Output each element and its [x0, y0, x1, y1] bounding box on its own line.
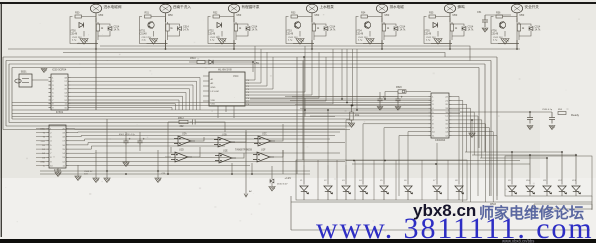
svg-text:4.7μ: 4.7μ: [426, 40, 431, 42]
wire: [106, 119, 108, 178]
ground: [55, 172, 61, 177]
svg-text:4.7μ: 4.7μ: [358, 40, 363, 42]
svg-text:R510: R510: [190, 57, 196, 60]
svg-text:V-: V-: [43, 166, 45, 168]
wire LED3 stem: [345, 165, 347, 200]
svg-text:R55: R55: [429, 12, 434, 15]
zener ZD54: [394, 26, 398, 30]
wire: [140, 17, 166, 44]
wire LED12 stem: [561, 152, 563, 196]
zener ZD50: [108, 26, 112, 30]
wire stem 上水程泵: [311, 13, 313, 22]
wire: [471, 120, 473, 133]
wire bus low1: [40, 170, 310, 172]
wire frame right2: [490, 61, 492, 197]
capacitor: [137, 138, 144, 146]
LED VL509: [508, 186, 517, 194]
svg-text:GND: GND: [211, 87, 216, 89]
svg-text:ZD50 5.6V: ZD50 5.6V: [277, 184, 288, 186]
diode VD50: [79, 23, 84, 28]
connector P3 有程循环泵: [228, 4, 239, 13]
diode: [209, 60, 213, 64]
wire: [57, 168, 59, 172]
svg-text:C530 0.1μ: C530 0.1μ: [542, 109, 553, 111]
LED VL507: [433, 186, 442, 194]
wire: [491, 17, 517, 44]
svg-text:U2C: U2C: [262, 133, 267, 136]
wire LED6 stem: [407, 165, 409, 200]
ground: [104, 178, 110, 183]
resistor: [179, 120, 188, 123]
LED VL505: [380, 186, 389, 194]
svg-text:有程循环泵: 有程循环泵: [242, 4, 260, 9]
wire bus2: [63, 53, 445, 58]
transistor VT56: [499, 21, 505, 28]
svg-text:4.7μ: 4.7μ: [493, 40, 498, 42]
wire: [168, 24, 180, 36]
wire: [125, 132, 127, 162]
wire: [504, 31, 506, 37]
wire: [451, 22, 453, 40]
wire frame1: [6, 61, 491, 127]
node bottom bar: [0, 239, 596, 243]
svg-text:VCC: VCC: [233, 74, 239, 78]
connector P1 进水电磁阀: [90, 4, 101, 13]
wire bus low2: [40, 173, 310, 175]
svg-text:R512: R512: [178, 117, 184, 120]
wire: [165, 147, 171, 157]
wire: [397, 92, 399, 107]
svg-text:C5148: C5148: [356, 32, 364, 35]
ground G55: [434, 39, 442, 45]
wire stem 排水电磁: [381, 13, 383, 22]
ground: [549, 126, 555, 130]
wire bus m1: [12, 109, 460, 111]
LED VL506: [404, 186, 413, 194]
svg-text:4.7μ: 4.7μ: [142, 40, 147, 42]
svg-text:C5148: C5148: [208, 32, 216, 35]
svg-text:TA8687F/8659: TA8687F/8659: [235, 148, 253, 152]
resistor: [197, 60, 205, 63]
zener ZD56: [529, 26, 533, 30]
svg-text:M50: M50: [315, 14, 320, 17]
connector P2 西南千洗入: [160, 4, 171, 13]
wire LED4 stem: [362, 165, 364, 200]
svg-text:C51: C51: [477, 11, 482, 14]
wire: [195, 124, 283, 142]
zener ZD55: [462, 26, 466, 30]
wire: [235, 22, 237, 40]
svg-text:C5148: C5148: [70, 32, 78, 35]
wire: [77, 40, 98, 49]
svg-text:U2B: U2B: [222, 134, 227, 137]
wire: [70, 17, 96, 44]
resistor: [558, 112, 566, 115]
op-amp U2B: [214, 137, 235, 147]
ground G50: [80, 39, 88, 45]
ground G51: [149, 39, 157, 45]
wire bus m4: [292, 96, 398, 98]
wire: [153, 31, 155, 37]
connector P5 排水电磁: [376, 4, 387, 13]
wire: [157, 150, 159, 178]
op-amp U2F: [253, 152, 274, 162]
wire: [485, 14, 511, 16]
svg-text:VSS: VSS: [211, 104, 216, 106]
diode VD55: [433, 23, 438, 28]
LED VL508: [455, 186, 464, 194]
wire: [437, 31, 439, 37]
wire: [449, 18, 451, 49]
LED VL501: [300, 186, 309, 194]
svg-text:U2E: U2E: [223, 150, 228, 153]
svg-text:CD4094: CD4094: [435, 138, 446, 142]
wire: [32, 79, 49, 81]
ground: [395, 107, 401, 111]
resistor R56: [496, 15, 503, 18]
wire LED9 stem: [511, 152, 513, 196]
capacitor C513: [190, 120, 199, 125]
zener: [270, 179, 274, 183]
transistor VT54: [364, 21, 370, 28]
wire stem 进水电磁阀: [95, 13, 97, 22]
svg-text:VDD: VDD: [211, 100, 216, 102]
connector P7 安全开关: [511, 4, 522, 13]
wire: [431, 40, 452, 49]
wire: [252, 62, 254, 72]
wire stem 西南千洗入: [165, 13, 167, 22]
wire: [356, 17, 382, 44]
svg-text:+5V: +5V: [254, 61, 259, 65]
svg-text:西南千洗入: 西南千洗入: [173, 4, 191, 9]
wire: [363, 40, 384, 49]
wire small box: [534, 204, 592, 209]
wire: [311, 18, 313, 49]
LED VL502: [324, 186, 333, 194]
wire: [165, 18, 167, 49]
svg-text:排水电磁: 排水电磁: [390, 4, 405, 9]
svg-text:M50: M50: [99, 14, 104, 17]
diode VD52: [217, 23, 222, 28]
ground: [348, 123, 354, 127]
op-amp U2E: [215, 153, 236, 163]
ground: [377, 107, 383, 111]
LED VL503: [342, 186, 351, 194]
svg-text:14.7k: 14.7k: [535, 29, 542, 32]
capacitor: [395, 96, 402, 104]
wire bus m7: [12, 105, 431, 107]
wire bus m2: [12, 113, 460, 115]
resistor: [350, 112, 353, 120]
ground G54: [366, 39, 374, 45]
capacitor C531: [549, 112, 555, 124]
wire bus m5: [250, 98, 431, 100]
wire: [299, 31, 301, 37]
zener ZD51: [178, 26, 182, 30]
capacitor C517: [482, 15, 488, 27]
svg-text:M50: M50: [385, 14, 390, 17]
LED VL512: [558, 186, 567, 194]
capacitor: [123, 138, 130, 146]
svg-text:OSC: OSC: [40, 129, 45, 131]
resistor R53: [291, 15, 298, 18]
svg-text:4.7μ: 4.7μ: [288, 40, 293, 42]
resistor R56b: [517, 24, 520, 31]
ground: [123, 162, 129, 167]
wire: [233, 18, 235, 49]
wire: [304, 98, 306, 117]
LED VL504: [359, 186, 368, 194]
svg-text:AC: AC: [249, 190, 252, 193]
svg-text:安全开关: 安全开关: [525, 4, 540, 9]
svg-text:14.7k: 14.7k: [330, 29, 337, 32]
ground G56: [501, 39, 509, 45]
wire: [139, 132, 141, 151]
node LED panel right: [505, 156, 592, 196]
svg-text:14.7k: 14.7k: [183, 29, 190, 32]
resistor R55: [429, 15, 436, 18]
resistor R51: [145, 15, 152, 18]
svg-text:R56: R56: [496, 12, 501, 15]
svg-text:C5148: C5148: [286, 32, 294, 35]
wire: [215, 40, 236, 49]
wire LED11 stem: [546, 158, 548, 196]
wire: [95, 18, 97, 49]
svg-text:R52: R52: [213, 12, 218, 15]
wire bus m6: [12, 102, 431, 104]
ground: [469, 133, 475, 138]
wire left border: [0, 4, 2, 237]
ground: [269, 187, 275, 192]
wire: [518, 22, 520, 40]
wire IC4 right fan: [452, 97, 460, 166]
wire: [452, 24, 464, 36]
resistor R54: [361, 15, 368, 18]
wire: [383, 22, 385, 40]
IC IC503: [429, 93, 452, 138]
wire stem 有程循环泵: [233, 13, 235, 22]
svg-text:R53: R53: [291, 12, 296, 15]
wire: [296, 57, 298, 174]
wire: [167, 122, 169, 174]
svg-text:M50: M50: [168, 14, 173, 17]
svg-text:14.7k: 14.7k: [468, 29, 475, 32]
svg-text:R50: R50: [75, 12, 80, 15]
wire frame3: [12, 68, 479, 120]
wire: [424, 17, 450, 44]
svg-text:LF 5.6M: LF 5.6M: [211, 91, 219, 93]
wire LED2 stem: [327, 165, 329, 200]
svg-text:蜂鸣: 蜂鸣: [458, 4, 466, 9]
wire: [293, 40, 314, 49]
svg-text:C5148: C5148: [424, 32, 432, 35]
IC U1 HL-8A MCU: [209, 72, 245, 106]
wire: [351, 106, 353, 113]
svg-text:R51: R51: [145, 12, 150, 15]
svg-text:Ready: Ready: [571, 113, 580, 117]
ground: [41, 69, 47, 73]
wire top border: [0, 2, 596, 4]
wire: [167, 22, 169, 40]
resistor R52: [213, 15, 220, 18]
wire: [236, 24, 248, 36]
wire stem 蜂鸣: [449, 13, 451, 22]
op-amp U2D: [171, 152, 192, 162]
ground: [93, 178, 99, 183]
wire: [314, 24, 326, 36]
wire: [519, 24, 531, 36]
wire: [498, 40, 519, 49]
wire: [208, 17, 234, 44]
capacitor: [377, 96, 384, 104]
node scan specks: [194, 42, 196, 43]
svg-text:B501: B501: [21, 71, 27, 74]
wire IC2 left pins: [203, 75, 209, 77]
op-amp U2C: [254, 136, 275, 146]
wire IC2 bottom: [218, 106, 234, 118]
svg-text:IC502: IC502: [54, 168, 62, 172]
wire: [77, 165, 79, 176]
wire ledbus2: [352, 163, 530, 165]
svg-text:R520: R520: [396, 86, 402, 89]
ground G52: [218, 39, 226, 45]
wire: [232, 150, 283, 174]
wire: [95, 150, 97, 178]
wire frame right4: [478, 68, 480, 149]
wire: [313, 22, 315, 40]
svg-text:M50: M50: [237, 14, 242, 17]
wire LED7 stem: [436, 165, 438, 200]
svg-text:U2F: U2F: [261, 149, 266, 152]
svg-text:14.7k: 14.7k: [252, 29, 259, 32]
ground: [527, 126, 533, 130]
svg-text:E501 +25V 4.7μ: E501 +25V 4.7μ: [119, 134, 136, 136]
wire: [189, 61, 253, 63]
wire: [436, 143, 438, 165]
svg-text:4.7μ: 4.7μ: [72, 40, 77, 42]
wire: [97, 22, 99, 40]
wire: [192, 147, 283, 158]
svg-text:C5148: C5148: [491, 32, 499, 35]
wire IC3 fan: [69, 128, 346, 131]
wire bottom box: [291, 196, 590, 230]
connector P4 上水程泵: [306, 4, 317, 13]
wire frame right3: [484, 64, 486, 152]
resistor R50b: [96, 24, 99, 31]
wire stem 安全开关: [516, 13, 518, 22]
node LED panel left: [296, 160, 467, 200]
crystal X501: [19, 74, 32, 87]
resistor R52b: [234, 24, 237, 31]
wire IC2 right pins: [245, 46, 255, 80]
svg-text:R54: R54: [361, 12, 366, 15]
wire led feeders: [303, 57, 305, 165]
IC IC501: [49, 74, 71, 110]
wire bus gnd: [8, 48, 520, 50]
svg-text:进水电磁阀: 进水电磁阀: [104, 4, 122, 9]
wire bus m3: [12, 116, 335, 118]
wire LED5 stem: [383, 165, 385, 200]
wire: [147, 40, 168, 49]
LED VL513: [572, 186, 581, 194]
wire: [98, 24, 110, 36]
wire LED10 stem: [529, 155, 531, 196]
transistor VT53: [294, 21, 300, 28]
resistor R55b: [450, 24, 453, 31]
wire: [379, 92, 381, 107]
svg-text:302: 302: [180, 125, 185, 128]
wire rpanel link2: [472, 154, 576, 156]
ground: [155, 178, 161, 183]
op-amp U2A: [174, 136, 195, 146]
wire ledbus1: [346, 160, 520, 162]
wire: [591, 196, 593, 210]
resistor R50: [75, 15, 82, 18]
wire: [381, 18, 383, 49]
svg-text:M50: M50: [520, 14, 525, 17]
resistor R51b: [166, 24, 169, 31]
wire: [369, 31, 371, 37]
transistor VT51: [148, 21, 154, 28]
zener ZD52: [246, 26, 250, 30]
wire frame0: [3, 57, 497, 130]
wire IC1 fan: [71, 78, 201, 111]
svg-text:CLK: CLK: [41, 141, 46, 143]
wire rpanel link1: [465, 151, 562, 153]
LED VL510: [526, 186, 535, 194]
IC IC502: [47, 125, 69, 168]
wire LED13 stem: [575, 155, 577, 196]
zener ZD53: [324, 26, 328, 30]
wire: [460, 111, 552, 113]
wire: [95, 49, 97, 110]
wire IC4 left fan: [285, 96, 429, 98]
wire: [83, 31, 85, 37]
svg-text:U2A: U2A: [182, 133, 187, 136]
svg-text:www. 3811111. com: www. 3811111. com: [316, 212, 594, 243]
node test point arrow: [244, 130, 248, 197]
svg-text:14.7k: 14.7k: [114, 29, 121, 32]
svg-text:M50: M50: [453, 14, 458, 17]
LED VL511: [543, 186, 552, 194]
wire frame right1: [496, 57, 498, 200]
wire bottom bus: [291, 201, 592, 203]
wire: [516, 18, 518, 49]
svg-text:IC50 5CR54: IC50 5CR54: [52, 68, 67, 72]
wire: [221, 31, 223, 37]
connector P6 蜂鸣: [444, 4, 455, 13]
wire: [351, 120, 353, 123]
wire frame2: [9, 64, 485, 123]
svg-text:GND: GND: [40, 161, 45, 163]
svg-text:C5148: C5148: [140, 32, 148, 35]
ground: [75, 176, 81, 181]
svg-text:上水程泵: 上水程泵: [320, 4, 335, 9]
wire: [302, 61, 304, 161]
capacitor C530: [527, 112, 533, 124]
svg-text:U2D: U2D: [179, 149, 184, 152]
wire LED8 stem: [458, 165, 460, 200]
wire mid risers: [341, 49, 343, 99]
wire: [168, 122, 225, 132]
wire LED1 stem: [303, 165, 305, 200]
wire: [286, 17, 312, 44]
wire bus +5V: [100, 46, 470, 61]
wire: [271, 166, 273, 186]
resistor R53b: [312, 24, 315, 31]
svg-text:4.7μ: 4.7μ: [210, 40, 215, 42]
ground G53: [296, 39, 304, 45]
